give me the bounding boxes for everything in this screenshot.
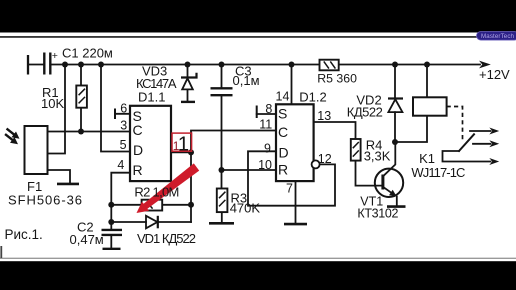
svg-text:10K: 10K: [41, 96, 64, 111]
svg-text:D: D: [133, 142, 143, 158]
svg-text:VD1 КД522: VD1 КД522: [137, 231, 196, 246]
svg-text:C: C: [278, 124, 288, 140]
svg-text:S: S: [278, 106, 287, 122]
svg-text:3: 3: [120, 118, 127, 132]
svg-text:470K: 470K: [230, 201, 261, 216]
svg-text:C: C: [133, 122, 143, 138]
svg-text:1: 1: [178, 133, 189, 156]
svg-text:КД522: КД522: [347, 105, 383, 120]
svg-text:10: 10: [258, 158, 272, 172]
svg-text:13: 13: [317, 109, 331, 123]
svg-text:+: +: [52, 50, 58, 62]
svg-text:R: R: [278, 162, 288, 178]
svg-text:12: 12: [318, 152, 332, 166]
svg-text:R: R: [133, 162, 143, 178]
svg-text:C1 220м: C1 220м: [62, 46, 113, 61]
svg-text:D1.2: D1.2: [299, 90, 326, 105]
svg-text:MasterTech: MasterTech: [481, 33, 515, 40]
svg-text:6: 6: [120, 101, 127, 115]
svg-text:7: 7: [286, 182, 293, 196]
svg-text:SFH506-36: SFH506-36: [8, 193, 82, 208]
svg-text:D: D: [279, 145, 289, 161]
svg-text:WJ117-1C: WJ117-1C: [411, 165, 465, 180]
svg-text:5: 5: [120, 138, 127, 152]
svg-text:14: 14: [276, 90, 290, 104]
svg-text:8: 8: [265, 102, 272, 116]
svg-text:4: 4: [117, 158, 124, 172]
svg-text:+12V: +12V: [479, 67, 510, 82]
svg-text:11: 11: [259, 117, 272, 131]
svg-text:Рис.1.: Рис.1.: [5, 227, 43, 242]
svg-text:9: 9: [264, 141, 271, 155]
svg-text:F1: F1: [27, 179, 42, 194]
svg-text:КТ3102: КТ3102: [357, 206, 398, 220]
svg-text:0,1м: 0,1м: [233, 73, 260, 88]
svg-text:K1: K1: [419, 151, 435, 166]
svg-text:0,47м: 0,47м: [70, 232, 104, 247]
svg-text:R2 1,0М: R2 1,0М: [134, 185, 179, 200]
svg-text:R5 360: R5 360: [317, 72, 357, 86]
svg-text:3,3K: 3,3K: [364, 149, 391, 164]
svg-text:D1.1: D1.1: [138, 90, 165, 105]
